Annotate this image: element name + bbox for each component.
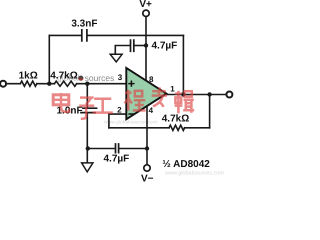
svg-text:sources: sources bbox=[85, 73, 115, 83]
capacitor C1 3.3nF plates bbox=[82, 30, 87, 41]
wire pin4 down to V- bbox=[146, 106, 148, 165]
resistor R3 4.7k feedback zigzag bbox=[169, 125, 185, 130]
wire top left to C1 bbox=[49, 34, 81, 36]
wire bottom bypass right bbox=[119, 148, 147, 150]
junction output node bbox=[207, 92, 211, 96]
wire C3 down to bottom node bbox=[86, 113, 88, 162]
wire bottom bypass left bbox=[88, 148, 115, 150]
wire node B down to C3 bbox=[86, 84, 88, 108]
junction V+ bypass bbox=[144, 43, 148, 47]
op-amp minus sign bbox=[128, 113, 134, 115]
junction output feedback bbox=[181, 92, 185, 96]
wire feedback bottom bbox=[109, 127, 210, 129]
wire input to R1 bbox=[6, 83, 20, 85]
red watermark char 2: zi bbox=[79, 98, 94, 119]
wire R2 to node B to pin3 bbox=[77, 83, 127, 85]
svg-text:V−: V− bbox=[141, 174, 154, 185]
capacitor C4 4.7uF plates bbox=[116, 144, 119, 153]
wire pin2 corner bbox=[109, 114, 126, 128]
svg-text:www.globalsources.com: www.globalsources.com bbox=[104, 120, 158, 126]
svg-text:2: 2 bbox=[117, 106, 122, 115]
op-amp U1 triangle bbox=[126, 68, 166, 119]
svg-text:8: 8 bbox=[149, 75, 154, 84]
svg-text:3: 3 bbox=[118, 73, 123, 82]
svg-text:1kΩ: 1kΩ bbox=[19, 70, 38, 81]
output terminal bbox=[226, 92, 232, 98]
wire V+ down pin8 bbox=[145, 17, 147, 81]
ground G2 bbox=[82, 163, 93, 172]
V- terminal bbox=[144, 165, 150, 171]
svg-text:www.globalsources.com: www.globalsources.com bbox=[164, 171, 224, 177]
svg-text:4: 4 bbox=[149, 106, 154, 115]
wire C1 to top right corner bbox=[88, 34, 184, 36]
svg-text:V+: V+ bbox=[139, 0, 152, 10]
wire R1 to node A to R2 bbox=[37, 83, 55, 85]
resistor R1 1k zigzag bbox=[20, 81, 37, 86]
red watermark char 3: gong bbox=[93, 99, 113, 113]
capacitor C3 1.0nF plates bbox=[81, 108, 97, 112]
wire C2 left stub to ground bbox=[115, 46, 129, 54]
wire right vertical down to output bbox=[182, 35, 184, 94]
op-amp plus sign bbox=[128, 81, 134, 87]
red watermark char 5: zhuan bbox=[152, 87, 167, 107]
svg-text:4.7µF: 4.7µF bbox=[104, 153, 130, 164]
svg-text:4.7kΩ: 4.7kΩ bbox=[162, 113, 189, 124]
wire bypass C2 to V+ line bbox=[135, 45, 146, 47]
wire node A up bbox=[48, 35, 50, 83]
wire output bbox=[167, 94, 227, 96]
svg-text:4.7µF: 4.7µF bbox=[152, 40, 178, 51]
svg-text:½ AD8042: ½ AD8042 bbox=[162, 159, 210, 170]
capacitor C2 4.7uF plates bbox=[131, 40, 134, 51]
junction bottom left bbox=[86, 146, 90, 150]
resistor R2 4.7k zigzag bbox=[54, 81, 76, 86]
junction node B bbox=[85, 82, 89, 86]
svg-text:1: 1 bbox=[170, 84, 175, 93]
svg-text:3.3nF: 3.3nF bbox=[71, 18, 97, 29]
junction node A bbox=[47, 82, 51, 86]
red watermark char 4: cheng bbox=[125, 90, 146, 111]
watermark logo dot bbox=[78, 76, 83, 81]
V+ terminal bbox=[143, 10, 149, 16]
red watermark char 1: dian bbox=[53, 93, 69, 112]
wire output node down bbox=[209, 95, 211, 128]
input terminal bbox=[0, 81, 6, 87]
red watermark char 6: ji bbox=[175, 91, 195, 114]
svg-text:4.7kΩ: 4.7kΩ bbox=[50, 70, 77, 81]
ground G1 bbox=[110, 54, 122, 62]
junction bottom right V- bbox=[145, 146, 149, 150]
